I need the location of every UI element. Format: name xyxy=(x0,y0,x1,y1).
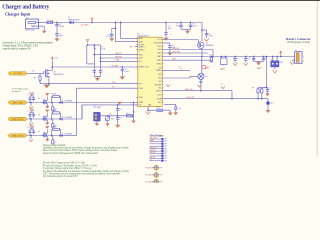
ground below input caps xyxy=(55,38,60,41)
svg-text:DMG2305UX: DMG2305UX xyxy=(53,74,64,76)
svg-text:J?: J? xyxy=(26,17,28,19)
row 2 capacitor pair xyxy=(29,112,31,114)
transistor Q2 xyxy=(162,77,190,79)
diode D1 reverse protection xyxy=(70,21,74,24)
svg-text:F? Fuse: F? Fuse xyxy=(47,20,54,22)
svg-text:may be able to support 5A: may be able to support 5A xyxy=(3,48,31,51)
wire TD pin xyxy=(162,69,190,71)
ground shared below C9 C10 xyxy=(254,60,264,62)
wire Q1 to battery bus xyxy=(201,48,203,56)
svg-text:R?: R? xyxy=(179,109,181,111)
row 2 series resistor xyxy=(51,113,53,119)
row 1 power arrow above transistor xyxy=(46,96,48,98)
svg-text:Barrel_Jack: Barrel_Jack xyxy=(26,29,35,32)
svg-text:PWR_LED5V: PWR_LED5V xyxy=(12,135,24,137)
thermistor connector J3 xyxy=(94,112,101,121)
wire PGOOD rail to sense network xyxy=(162,98,268,100)
capacitor C14 xyxy=(100,45,102,71)
svg-text:Q?: Q? xyxy=(205,76,207,78)
wire into IC IN pins xyxy=(120,23,122,39)
svg-text:predicted: predicted xyxy=(11,90,21,93)
row 2 wire from oval xyxy=(26,118,62,120)
svg-text:R? 330: R? 330 xyxy=(51,127,56,129)
svg-text:TP?: TP? xyxy=(164,144,167,146)
test point row 7 xyxy=(150,152,168,155)
ground chevron right xyxy=(221,86,225,88)
svg-text:C?: C? xyxy=(209,34,211,36)
svg-text:R?: R? xyxy=(34,77,36,79)
svg-text:+5V_PWR: +5V_PWR xyxy=(13,73,23,75)
svg-text:ISET2: ISET2 xyxy=(156,90,161,92)
svg-text:PWR_GOOD: PWR_GOOD xyxy=(12,119,24,121)
svg-text:SYSOFF: SYSOFF xyxy=(154,43,162,45)
svg-text:BQ24075RGT: BQ24075RGT xyxy=(137,35,149,37)
svg-text:+5V_CHG: +5V_CHG xyxy=(80,25,89,27)
svg-text:CHG_INT: CHG_INT xyxy=(150,152,157,154)
test point row 5 xyxy=(150,147,168,150)
row 3 ground drop left xyxy=(30,136,32,140)
ground below C18 xyxy=(204,39,208,42)
capacitor C15 on VTSB xyxy=(121,66,123,68)
svg-text:100uF: 100uF xyxy=(59,26,64,28)
power symbol +BATT arrow xyxy=(280,53,282,56)
svg-text:0.1uF: 0.1uF xyxy=(209,35,213,37)
svg-text:TP_GND: TP_GND xyxy=(145,181,152,183)
row 2 power arrow above transistor xyxy=(46,112,48,114)
test point TP1 circle xyxy=(154,166,159,171)
wire BAT pin with label xyxy=(162,52,208,54)
test point TP on SDA rail xyxy=(267,99,269,102)
input port oval +5V xyxy=(9,72,26,75)
row 3 transistor xyxy=(42,133,44,137)
svg-text:TP?: TP? xyxy=(164,156,167,158)
svg-text:C?: C? xyxy=(125,69,127,71)
svg-text:VREG OUT: VREG OUT xyxy=(139,67,150,69)
pullup at INT net xyxy=(164,103,176,105)
svg-text:C?: C? xyxy=(221,84,223,86)
ground below battery connector xyxy=(290,62,294,65)
svg-text:TP_GND: TP_GND xyxy=(145,167,152,169)
svg-text:TMR2: TMR2 xyxy=(156,70,161,72)
power flag on 5V ladder xyxy=(87,42,89,44)
svg-text:0.1uF: 0.1uF xyxy=(125,71,129,73)
svg-text:EN2: EN2 xyxy=(139,54,143,56)
input bulk capacitor C1 xyxy=(56,23,58,25)
svg-text:Charger Input: Charger Input xyxy=(5,13,31,17)
row 2 LED xyxy=(60,118,63,121)
svg-text:RV?: RV? xyxy=(111,119,114,121)
barrel jack J1 xyxy=(25,19,38,29)
svg-text:C?: C? xyxy=(120,118,122,120)
svg-text:CHG_EN: CHG_EN xyxy=(172,51,180,53)
wire Q2 drain down xyxy=(200,80,202,91)
svg-text:1uF: 1uF xyxy=(176,25,179,27)
svg-text:TS: TS xyxy=(150,159,152,161)
svg-text:C?: C? xyxy=(176,24,178,26)
wire CE to IC xyxy=(101,60,138,62)
wire row1 branch down to TS end xyxy=(133,103,135,116)
ground chevron under Q2 xyxy=(198,85,202,87)
row 1 capacitor pair xyxy=(29,96,31,98)
junction C5 drop xyxy=(180,22,182,24)
transistor Q1 PMOS power switch xyxy=(198,42,204,48)
ground below C3 xyxy=(109,38,114,41)
ground at jack xyxy=(39,25,45,27)
capacitor C13 xyxy=(93,45,95,71)
svg-text:C? 0.1uF: C? 0.1uF xyxy=(28,94,34,96)
svg-text:TP?: TP? xyxy=(164,148,167,150)
svg-text:DMG2305: DMG2305 xyxy=(206,45,214,47)
wire fuse to node xyxy=(53,22,70,24)
ground below cap ladder xyxy=(94,76,100,78)
svg-text:TP?: TP? xyxy=(157,107,160,109)
ground below C17 xyxy=(115,125,120,128)
capacitor C6 xyxy=(190,23,192,26)
IC thermal pad ground xyxy=(147,107,149,111)
wire ladder left branch xyxy=(86,45,88,64)
svg-text:ILIM: ILIM xyxy=(139,58,143,60)
junction at input cap xyxy=(56,22,58,24)
status port oval PWR_GOOD xyxy=(9,117,26,120)
supervisor U2 xyxy=(221,57,223,59)
row 1 series resistor xyxy=(51,96,53,102)
junction C4 drop xyxy=(165,22,167,24)
row 1 wire from oval xyxy=(26,102,62,104)
row 2 transistor xyxy=(42,116,44,120)
svg-text:All VIN groups (1.4mm): All VIN groups (1.4mm) xyxy=(286,41,310,44)
svg-text:0.1uF: 0.1uF xyxy=(101,49,105,51)
svg-text:Q?: Q? xyxy=(38,131,40,133)
svg-text:TP?: TP? xyxy=(159,167,162,169)
fuse F1 xyxy=(47,21,53,23)
row 2 ground drop left xyxy=(30,119,32,123)
svg-text:R? 330: R? 330 xyxy=(51,94,56,96)
svg-text:PSEL: PSEL xyxy=(156,63,161,65)
status port oval PWR_LED5V xyxy=(9,134,26,137)
wire ISET with label xyxy=(162,59,213,61)
capacitor C12 sense xyxy=(267,87,269,89)
ground below thermistor connector xyxy=(96,121,98,123)
power arrow +5V above Q3 xyxy=(51,61,53,67)
ground below C4 xyxy=(164,38,169,41)
capacitor C10 xyxy=(263,57,265,59)
svg-text:1: 1 xyxy=(303,57,304,59)
capacitor C18 at Q1 gate xyxy=(201,29,203,31)
svg-text:D? GREEN: D? GREEN xyxy=(64,100,73,102)
svg-text:0.1uF: 0.1uF xyxy=(192,25,196,27)
svg-text:CHG_INT: CHG_INT xyxy=(187,97,196,99)
test point row 8 xyxy=(150,155,168,158)
capacitor C3 4.7uF xyxy=(114,23,116,29)
row 2 wire after LED xyxy=(63,118,82,120)
svg-text:CHG_OK: CHG_OK xyxy=(185,89,193,91)
svg-text:C?: C? xyxy=(192,24,194,26)
wire Q3 source up xyxy=(50,69,53,71)
wire SYSOFF with label xyxy=(162,49,213,51)
test point row 6 xyxy=(150,150,168,153)
test point ring on battery column xyxy=(202,65,206,69)
test point row 1 xyxy=(150,138,168,141)
svg-text:SYSOFF: SYSOFF xyxy=(172,48,180,50)
resistor R2 on system rail xyxy=(210,56,212,59)
resistor R4 sense xyxy=(261,93,263,99)
capacitor C19 at TS end xyxy=(133,116,135,121)
svg-text:Q?: Q? xyxy=(38,115,40,117)
test point row 4 xyxy=(150,145,168,148)
svg-text:+BATT: +BATT xyxy=(220,67,226,70)
schematic ink group xyxy=(8,17,304,184)
svg-text:Dynamic Power Management (DPM): Dynamic Power Management (DPM) not imple… xyxy=(43,152,99,155)
junction input cap 4u7 xyxy=(115,22,117,24)
svg-text:CHG_OK: CHG_OK xyxy=(150,147,156,149)
thermistor connector TH1 xyxy=(272,57,274,61)
capacitor C7 xyxy=(234,57,236,59)
IC U1 pin stubs xyxy=(136,38,163,105)
junction IC input drop xyxy=(120,22,122,24)
row 2 resistor below xyxy=(52,120,54,123)
wire CHG_OK rail xyxy=(162,90,232,92)
svg-text:ILIM: ILIM xyxy=(116,60,120,62)
wire EN2 to IC xyxy=(94,54,138,56)
battery connector J2 xyxy=(295,52,302,64)
svg-text:+B: +B xyxy=(179,66,181,68)
svg-text:SCL: SCL xyxy=(158,94,162,96)
svg-text:C?: C? xyxy=(269,88,271,90)
test point TP2 circle xyxy=(154,173,159,178)
svg-text:CHRG_STAT: CHRG_STAT xyxy=(12,101,24,104)
svg-text:Q?: Q? xyxy=(38,98,40,100)
row 3 LED xyxy=(60,134,63,137)
svg-text:C?: C? xyxy=(249,57,251,59)
wire TS net xyxy=(100,115,133,117)
right edge scrollbar line xyxy=(316,1,318,156)
capacitor C11 at SYS pin xyxy=(162,42,170,44)
wire diode to IC input xyxy=(73,22,202,24)
svg-text:J?: J? xyxy=(271,59,273,61)
svg-text:D? GREEN: D? GREEN xyxy=(64,117,73,119)
row 3 capacitor pair xyxy=(29,129,31,131)
svg-text:J?: J? xyxy=(295,50,297,52)
capacitor C9 xyxy=(253,57,255,59)
status port oval CHRG_STAT xyxy=(9,101,26,104)
ground shared below C5 C6 xyxy=(181,29,191,31)
gate resistor R5 xyxy=(39,73,41,76)
svg-text:C?: C? xyxy=(237,59,239,61)
svg-text:C?: C? xyxy=(93,47,95,49)
svg-text:Battery Connector: Battery Connector xyxy=(286,37,311,41)
svg-text:R? 330: R? 330 xyxy=(51,110,56,112)
ground right of ferrite xyxy=(163,109,171,111)
svg-text:R?: R? xyxy=(127,113,129,115)
wire Q1 gate from IC xyxy=(162,39,198,41)
svg-text:ACSET: ACSET xyxy=(155,84,162,87)
svg-text:TP?: TP? xyxy=(159,181,162,183)
svg-text:MR_EN: MR_EN xyxy=(150,157,155,159)
wire ILIM to IC xyxy=(101,57,138,59)
row 3 power arrow above transistor xyxy=(46,129,48,131)
potentiometer RV1 xyxy=(105,116,110,121)
power arrow on PG rail xyxy=(43,85,50,89)
svg-text:10uF: 10uF xyxy=(168,28,172,30)
svg-text:C?: C? xyxy=(101,47,103,49)
capacitor C8 xyxy=(245,57,247,59)
capacitor C16 above TS wire xyxy=(117,105,119,109)
svg-text:I2C provides option for serial: I2C provides option for serial NTC xyxy=(43,175,78,178)
wire from bus bend at ISET2 xyxy=(231,91,233,99)
svg-text:MBR230LSFT1: MBR230LSFT1 xyxy=(68,19,80,21)
svg-text:TP?: TP? xyxy=(159,175,162,177)
svg-text:STAT1: STAT1 xyxy=(139,45,145,48)
svg-text:1uF: 1uF xyxy=(93,49,96,51)
svg-text:TP?: TP? xyxy=(164,141,167,143)
svg-text:10uF: 10uF xyxy=(59,36,63,38)
svg-text:CHG: CHG xyxy=(139,88,144,90)
row 3 resistor below xyxy=(52,137,54,140)
svg-text:C?: C? xyxy=(120,109,122,111)
svg-text:TS2: TS2 xyxy=(158,78,161,80)
IC U1 pin names xyxy=(139,37,162,107)
test point row 9 xyxy=(150,157,168,160)
svg-text:+5V_CHG: +5V_CHG xyxy=(150,138,158,140)
power arrow down on TMR wire xyxy=(117,102,121,105)
row 1 ground below transistor xyxy=(45,106,49,109)
svg-text:Test Points: Test Points xyxy=(150,134,165,138)
wire Q3 drain down to rail xyxy=(49,75,51,77)
svg-text:TP?: TP? xyxy=(164,158,167,160)
row 1 ground drop left xyxy=(30,103,32,107)
row 3 power chevron above xyxy=(31,127,33,129)
wire battery FET column xyxy=(201,57,203,74)
row 1 resistor below xyxy=(52,104,54,107)
junction C6 drop xyxy=(190,22,192,24)
row 1 power chevron above xyxy=(31,94,33,96)
svg-text:PGOOD: PGOOD xyxy=(150,150,157,152)
row 1 LED xyxy=(60,101,63,104)
row 2 power chevron above xyxy=(31,111,33,113)
svg-text:4.7uF: 4.7uF xyxy=(106,36,110,38)
row 3 series resistor xyxy=(51,129,53,135)
ground chevron left xyxy=(166,84,170,86)
ground below potentiometer xyxy=(105,123,110,126)
svg-text:MR_EN: MR_EN xyxy=(116,56,123,58)
svg-text:+BATT: +BATT xyxy=(256,67,263,70)
row 1 transistor xyxy=(42,100,44,104)
svg-text:MR_5V: MR_5V xyxy=(116,53,123,55)
svg-text:C? 0.1uF: C? 0.1uF xyxy=(28,127,34,129)
net label EN stub xyxy=(135,46,138,48)
svg-text:TP?: TP? xyxy=(164,153,167,155)
wire VTSB from Q3 to IC xyxy=(52,66,138,68)
row 1 wire after LED xyxy=(63,102,138,104)
svg-text:TP_GND: TP_GND xyxy=(145,175,152,177)
test point row 2 xyxy=(150,139,168,143)
wire R5 bottom to rail xyxy=(39,80,41,84)
row 3 wire from oval xyxy=(26,135,62,137)
svg-text:ACN: ACN xyxy=(139,40,144,43)
row 3 ground below transistor xyxy=(45,139,49,142)
svg-text:5V DC/5A backup: 5V DC/5A backup xyxy=(12,88,29,91)
charge implementation notes xyxy=(43,144,130,178)
wire bus to sense divider xyxy=(265,57,267,88)
battery bus wire xyxy=(162,56,295,58)
capacitor C4 10uF at VCC xyxy=(165,23,167,33)
svg-text:TP?: TP? xyxy=(206,67,209,69)
svg-text:C?: C? xyxy=(131,117,133,119)
svg-text:Charger and Battery: Charger and Battery xyxy=(2,5,49,11)
svg-text:VCC: VCC xyxy=(157,39,162,41)
top window border xyxy=(0,0,320,2)
test point row 10 xyxy=(150,159,168,162)
svg-text:TP?: TP? xyxy=(164,146,167,148)
svg-text:J?: J? xyxy=(94,105,96,107)
svg-text:2: 2 xyxy=(303,60,304,62)
power flag PWR1 xyxy=(91,21,93,23)
svg-text:TP?: TP? xyxy=(164,139,167,141)
wire PG rail top xyxy=(40,83,138,85)
input capacitor C2 xyxy=(55,33,58,35)
capacitor C17 below TS wire xyxy=(117,116,119,118)
wire TMR net from left xyxy=(81,105,83,119)
row 2 ground below transistor xyxy=(45,122,49,125)
test point TP3 circle xyxy=(154,180,159,185)
wire jack to fuse xyxy=(39,22,47,24)
svg-text:C? 0.1uF: C? 0.1uF xyxy=(28,110,34,112)
svg-text:TP?: TP? xyxy=(164,151,167,153)
wire ladder top xyxy=(87,44,101,46)
svg-text:TP?: TP? xyxy=(271,103,274,105)
row 3 wire after LED xyxy=(63,135,77,137)
svg-text:TP?: TP? xyxy=(164,160,167,162)
wire oval to Q3 xyxy=(26,72,44,74)
svg-text:R?: R? xyxy=(252,87,254,89)
svg-text:STAT2: STAT2 xyxy=(139,49,145,52)
resistor R6 on TS wire xyxy=(126,115,133,117)
transistor Q3 PMOS xyxy=(43,71,45,73)
svg-text:D? GREEN: D? GREEN xyxy=(64,133,73,135)
svg-text:+5V_MR: +5V_MR xyxy=(111,65,119,67)
test point row 3 xyxy=(150,143,168,146)
IC U1 battery charger xyxy=(138,37,162,106)
ferrite bead FB1 xyxy=(148,109,157,111)
wire top bus corner down to Q1 xyxy=(201,23,203,42)
capacitor C5 xyxy=(180,23,182,26)
resistor R3 sense xyxy=(257,93,259,99)
